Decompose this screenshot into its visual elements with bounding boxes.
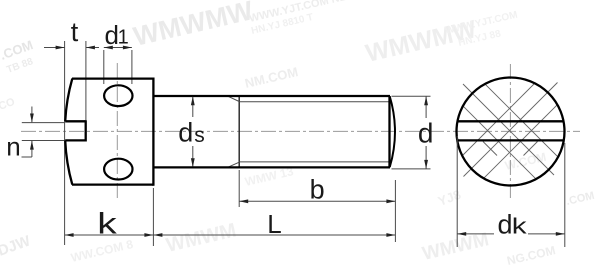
svg-text:b: b bbox=[310, 175, 325, 205]
svg-text:CO: CO bbox=[0, 96, 17, 113]
svg-text:WMWM: WMWM bbox=[420, 229, 491, 265]
svg-text:NG.COM: NG.COM bbox=[506, 243, 557, 268]
svg-text:DJW: DJW bbox=[0, 232, 33, 260]
svg-text:YJ8: YJ8 bbox=[436, 187, 463, 209]
svg-text:s: s bbox=[194, 124, 205, 147]
svg-text:L: L bbox=[267, 209, 281, 239]
svg-text:d: d bbox=[178, 118, 193, 148]
svg-text:d: d bbox=[418, 117, 434, 148]
svg-text:WW.COM 8: WW.COM 8 bbox=[70, 237, 135, 265]
svg-text:n: n bbox=[6, 132, 20, 162]
svg-text:d: d bbox=[498, 210, 513, 240]
svg-text:1: 1 bbox=[118, 27, 129, 49]
svg-text:t: t bbox=[71, 17, 79, 47]
svg-text:WMWM: WMWM bbox=[164, 219, 238, 256]
svg-text:WMWMW: WMWMW bbox=[131, 0, 257, 52]
svg-text:k: k bbox=[512, 213, 528, 238]
svg-text:NM.COM: NM.COM bbox=[243, 64, 299, 91]
svg-text:k: k bbox=[97, 207, 117, 240]
svg-text:.COM: .COM bbox=[565, 190, 596, 208]
